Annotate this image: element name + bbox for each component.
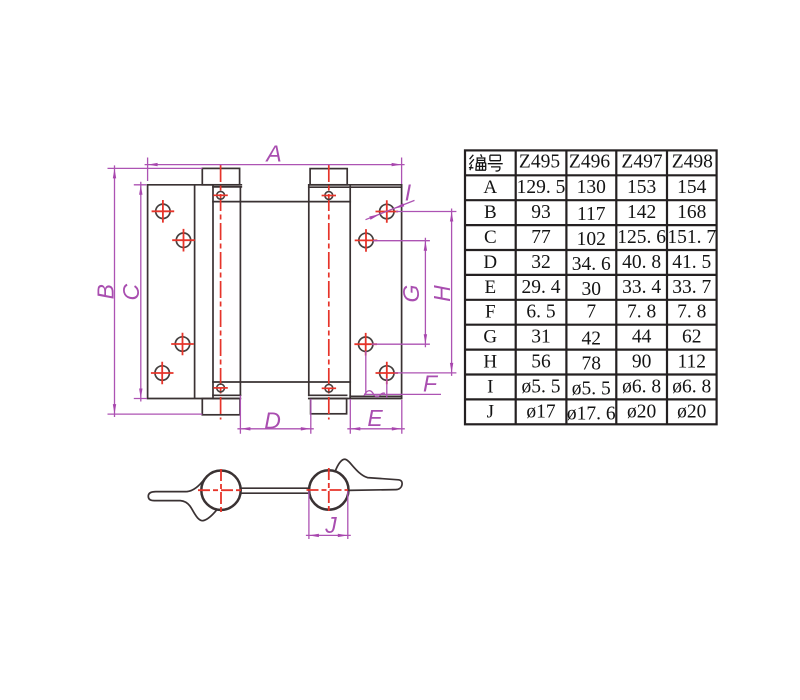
svg-text:142: 142 <box>627 202 656 223</box>
svg-text:ø20: ø20 <box>677 401 706 422</box>
svg-text:H: H <box>483 352 497 373</box>
svg-text:30: 30 <box>582 279 602 300</box>
centerline left barrel <box>220 165 222 420</box>
centerline right barrel <box>328 165 330 420</box>
left leaf wrap outline <box>148 479 217 521</box>
svg-text:A: A <box>483 177 497 198</box>
svg-text:ø6. 8: ø6. 8 <box>622 376 661 397</box>
table outer border <box>465 150 717 424</box>
svg-text:G: G <box>398 285 424 303</box>
svg-text:112: 112 <box>678 352 707 373</box>
right side top edge double line <box>309 185 402 187</box>
left bottom band second line <box>213 394 240 396</box>
svg-text:78: 78 <box>582 354 602 375</box>
svg-text:ø20: ø20 <box>627 401 656 422</box>
right plate left edge <box>349 185 351 399</box>
svg-text:29. 4: 29. 4 <box>522 277 561 298</box>
svg-text:168: 168 <box>677 202 706 223</box>
svg-text:ø6. 8: ø6. 8 <box>672 376 711 397</box>
svg-text:Z498: Z498 <box>672 152 713 173</box>
svg-text:A: A <box>264 141 281 167</box>
svg-text:33. 7: 33. 7 <box>672 277 711 298</box>
svg-text:56: 56 <box>531 352 551 373</box>
svg-text:Z496: Z496 <box>569 152 610 173</box>
svg-text:J: J <box>324 512 337 538</box>
svg-text:125. 6: 125. 6 <box>617 227 666 248</box>
svg-text:7: 7 <box>586 302 596 323</box>
svg-text:90: 90 <box>632 352 652 373</box>
svg-text:102: 102 <box>577 229 606 250</box>
pin hole top-left <box>213 191 227 199</box>
top cap right barrel <box>310 169 347 185</box>
right leaf wrap outline <box>335 459 402 490</box>
hole R3 <box>354 333 377 356</box>
pin hole top-right <box>322 192 336 200</box>
bottom edge right half <box>309 398 402 400</box>
svg-text:6. 5: 6. 5 <box>526 302 555 323</box>
table column lines <box>516 150 667 424</box>
svg-text:H: H <box>429 285 455 302</box>
svg-text:ø17: ø17 <box>526 401 556 422</box>
hole L4 <box>151 362 174 385</box>
svg-text:E: E <box>484 277 496 298</box>
dimension J <box>306 491 351 539</box>
svg-text:F: F <box>423 371 439 397</box>
svg-text:42: 42 <box>582 329 602 350</box>
bottom cap left barrel <box>202 399 240 415</box>
svg-text:151. 7: 151. 7 <box>667 227 716 248</box>
svg-text:I: I <box>405 180 412 206</box>
crosshair left circle <box>198 469 242 513</box>
hole L2 <box>172 229 195 252</box>
svg-text:44: 44 <box>632 327 652 348</box>
svg-text:33. 4: 33. 4 <box>622 277 661 298</box>
svg-text:62: 62 <box>682 327 702 348</box>
left barrel left edge <box>212 185 214 399</box>
left leaf plate outline <box>148 185 242 399</box>
svg-text:B: B <box>484 202 497 223</box>
svg-text:D: D <box>483 252 497 273</box>
svg-text:130: 130 <box>577 177 606 198</box>
svg-text:41. 5: 41. 5 <box>672 252 711 273</box>
svg-text:34. 6: 34. 6 <box>572 254 611 275</box>
svg-text:93: 93 <box>531 202 551 223</box>
table row lines <box>465 175 717 399</box>
svg-text:31: 31 <box>531 327 551 348</box>
header 编号 glyphs <box>469 154 503 171</box>
svg-text:40. 8: 40. 8 <box>622 252 661 273</box>
svg-text:F: F <box>485 302 496 323</box>
svg-text:G: G <box>483 327 497 348</box>
svg-text:154: 154 <box>677 177 707 198</box>
svg-text:7. 8: 7. 8 <box>627 302 656 323</box>
crosshair right circle <box>307 468 349 513</box>
svg-text:117: 117 <box>577 204 606 225</box>
svg-text:129. 5: 129. 5 <box>517 177 566 198</box>
svg-text:B: B <box>93 284 119 299</box>
svg-text:E: E <box>367 405 383 431</box>
svg-text:D: D <box>264 408 281 434</box>
top cap left barrel <box>202 168 239 184</box>
svg-text:J: J <box>487 401 494 422</box>
hole L3 <box>171 333 194 356</box>
svg-text:ø5. 5: ø5. 5 <box>522 376 561 397</box>
pin hole bottom-left <box>213 384 227 392</box>
svg-text:7. 8: 7. 8 <box>677 302 706 323</box>
svg-text:32: 32 <box>531 252 551 273</box>
left knuckle second top line <box>213 186 241 188</box>
left barrel circle <box>201 471 240 510</box>
bottom cap right barrel <box>311 399 347 414</box>
center plate bottom edge <box>213 381 350 383</box>
left barrel right edge <box>239 187 241 395</box>
hole R4 <box>376 362 399 385</box>
center plate edge-on <box>241 488 310 493</box>
right plate right edge <box>401 185 403 399</box>
svg-text:C: C <box>118 284 144 301</box>
svg-text:I: I <box>487 376 493 397</box>
svg-text:Z495: Z495 <box>519 152 560 173</box>
svg-text:ø5. 5: ø5. 5 <box>572 378 611 399</box>
F break squiggle <box>364 391 385 397</box>
svg-text:77: 77 <box>531 227 551 248</box>
right barrel circle <box>309 470 348 509</box>
svg-text:Z497: Z497 <box>621 152 662 173</box>
right plate second bottom line <box>350 395 401 397</box>
svg-text:153: 153 <box>627 177 656 198</box>
hole R1 <box>376 200 399 223</box>
pin hole bottom-right <box>322 384 336 392</box>
svg-text:ø17. 6: ø17. 6 <box>567 403 616 424</box>
hole L1 <box>152 200 175 223</box>
right barrel left edge <box>308 185 310 395</box>
svg-text:C: C <box>484 227 497 248</box>
center plate top edge <box>213 201 350 203</box>
right bottom band second line <box>309 394 347 396</box>
hole R2 <box>355 229 378 252</box>
